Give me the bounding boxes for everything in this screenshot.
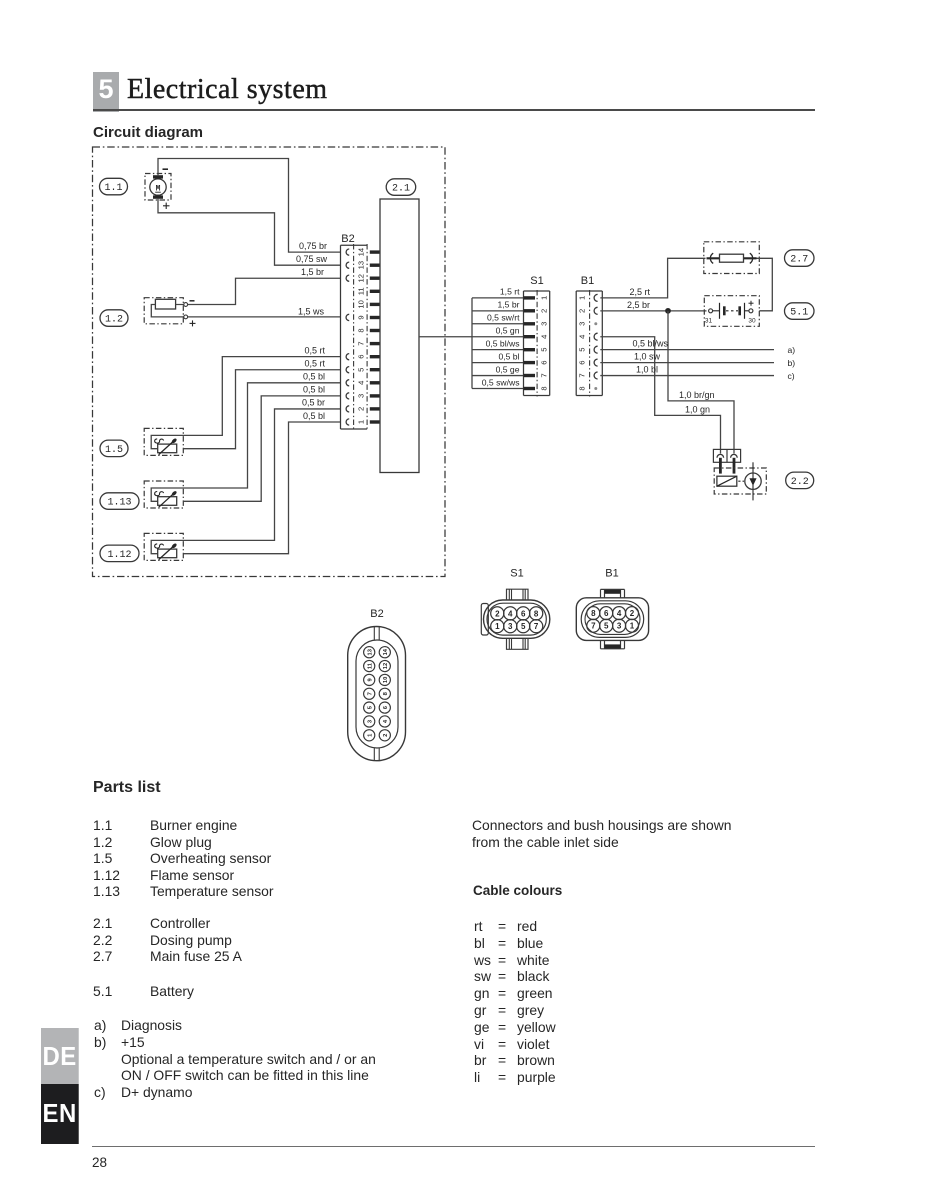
svg-text:9: 9	[357, 315, 366, 319]
header rule	[93, 109, 815, 111]
svg-text:0,5 bl: 0,5 bl	[498, 351, 519, 361]
motor M 1.1 enclosure	[145, 174, 171, 201]
connector B1 female contact pin 7	[594, 372, 598, 379]
svg-text:B1: B1	[605, 568, 618, 580]
wire B1 pin 1 to fuse 2.7 (2,5 rt)	[600, 258, 705, 298]
connector B2 female contact pin 6	[346, 354, 349, 360]
wire S1 pin 1 (1,5 rt)	[472, 297, 524, 299]
connector face B1 top latch	[601, 589, 625, 597]
chapter title	[127, 74, 328, 106]
svg-text:6: 6	[578, 360, 587, 364]
svg-text:1.12: 1.12	[107, 550, 131, 561]
dosing pump 2.2 enclosure	[714, 468, 766, 494]
dosing pump body	[745, 473, 761, 489]
connector face B2 cavity 8	[379, 688, 390, 699]
parts list heading	[93, 779, 161, 797]
svg-text:0,5 bl/ws: 0,5 bl/ws	[486, 338, 520, 348]
wire glow plug plus to B2 pin 9 (1,5 ws)	[188, 316, 341, 318]
svg-text:5: 5	[521, 622, 526, 631]
connector S1 male pin 5	[524, 348, 536, 351]
svg-text:5.1: 5.1	[790, 308, 808, 319]
svg-text:1.13: 1.13	[107, 498, 131, 509]
svg-text:3: 3	[367, 719, 373, 723]
svg-text:0,5 rt: 0,5 rt	[304, 346, 325, 356]
connector B2 female contact pin 12	[346, 275, 349, 281]
node label oval 1.5	[100, 440, 128, 457]
connector face B2 cavity 12	[379, 660, 390, 671]
connector B1 female contact pin 6	[594, 359, 598, 366]
svg-text:1: 1	[540, 296, 549, 300]
connector B1 female contact pin 1	[594, 294, 598, 301]
svg-text:0,5 ge: 0,5 ge	[496, 364, 520, 374]
svg-text:1: 1	[630, 622, 635, 631]
parts list group 3	[93, 983, 194, 1000]
temperature sensor 1.12	[144, 533, 183, 560]
svg-text:0,5 sw/rt: 0,5 sw/rt	[487, 313, 520, 323]
svg-text:11: 11	[367, 662, 373, 669]
dosing pump flow line	[752, 462, 754, 500]
svg-text:1.2: 1.2	[105, 315, 123, 326]
node label oval 1.13	[100, 493, 139, 510]
connector face B1 cavity 1	[626, 619, 639, 632]
connector face S1 bottom latch	[507, 638, 529, 649]
svg-text:2: 2	[540, 309, 549, 313]
wire sensor 1.5 pin A to B2 pin 6 (0,5 rt)	[160, 357, 341, 436]
node label oval 1.12	[100, 545, 139, 562]
wire sensor 1.13 pin A to B2 pin 4 (0,5 bl)	[160, 383, 341, 488]
svg-text:14: 14	[357, 248, 366, 256]
wire S1 pin 5 (0,5 bl/ws)	[472, 349, 524, 351]
wire motor minus to B2 pin 14 (0,75 br)	[158, 159, 341, 253]
connector face S1 cavity 3	[504, 620, 517, 633]
page number	[92, 1155, 107, 1170]
svg-text:1,0 br/gn: 1,0 br/gn	[679, 390, 715, 400]
node label oval 2.1	[386, 179, 416, 196]
svg-text:1,5 br: 1,5 br	[301, 267, 324, 277]
svg-text:4: 4	[508, 609, 513, 618]
dosing pump contact right	[731, 454, 738, 457]
svg-text:3: 3	[357, 394, 366, 398]
battery terminal 31	[709, 309, 713, 313]
svg-text:7: 7	[534, 622, 539, 631]
svg-text:13: 13	[367, 648, 373, 655]
connector B2 female contact pin 3	[346, 393, 349, 399]
connector face S1 cavity 6	[517, 607, 530, 620]
motor brush pad bottom	[153, 195, 163, 198]
motor M 1.1 body	[150, 179, 166, 195]
connector face S1 cavity 7	[530, 620, 543, 633]
svg-text:1: 1	[495, 622, 500, 631]
dosing pump link	[738, 480, 744, 482]
connector B2 male pin 13	[370, 264, 380, 267]
svg-text:5: 5	[578, 348, 587, 352]
connector B2 housing centre dash-dot line	[353, 244, 355, 430]
dosing pump contact left	[717, 454, 724, 457]
connector face S1 housing	[481, 604, 488, 636]
motor brush pad top	[153, 175, 163, 178]
svg-text:0,5 rt: 0,5 rt	[304, 359, 325, 369]
connector B2 male pin 7	[370, 342, 380, 345]
battery plus sign	[749, 302, 754, 304]
wire S1 pin 3 (0,5 sw/rt)	[472, 323, 524, 325]
svg-text:5: 5	[367, 705, 373, 709]
connector B1 centre dash-dot line	[589, 290, 591, 397]
connector B2 male pin 1	[370, 420, 380, 423]
connector face B2 cavity 14	[379, 647, 390, 658]
svg-text:4: 4	[540, 335, 549, 339]
svg-text:B2: B2	[370, 608, 383, 620]
connector face B2 key bottom	[373, 748, 375, 761]
connector B1 unused contact dot pin 3	[595, 323, 597, 325]
wire sensor 1.13 pin B to B2 pin 3 (0,5 bl)	[183, 396, 340, 501]
connector B1 female contact pin 2	[594, 307, 598, 314]
connector B2 male pin 5	[370, 368, 380, 371]
node label oval 2.7	[785, 250, 815, 266]
svg-text:2.7: 2.7	[790, 255, 808, 266]
svg-text:5: 5	[357, 368, 366, 372]
connector face B2 cavity 9	[364, 674, 375, 685]
cable bundle line S1	[471, 298, 473, 389]
connector face S1 cavity 1	[491, 620, 504, 633]
svg-text:2: 2	[357, 407, 366, 411]
wire B1 pin 5 diagnosis line (0,5 bl/ws)	[600, 349, 774, 351]
connector face B1 cavity 8	[587, 607, 600, 620]
svg-text:7: 7	[578, 373, 587, 377]
svg-text:1: 1	[578, 296, 587, 300]
connector face B2 cavity 13	[364, 647, 375, 658]
svg-text:2: 2	[630, 609, 635, 618]
svg-text:c): c)	[788, 371, 795, 381]
dosing pump connector housing	[713, 449, 740, 462]
svg-text:2.1: 2.1	[392, 184, 410, 195]
connector S1 male pin 6	[524, 361, 536, 364]
wire controller to S1 pin 4 (0,5 gn)	[419, 336, 524, 338]
svg-text:0,5 gn: 0,5 gn	[496, 326, 520, 336]
connector B1 female contact pin 5	[594, 346, 598, 353]
svg-text:1,0 sw: 1,0 sw	[634, 352, 661, 362]
connector B2 female contact pin 13	[346, 262, 349, 268]
svg-text:S1: S1	[510, 568, 523, 580]
connector face B2 cavity 10	[379, 674, 390, 685]
wire B1 pin 7 D+ line (1,0 bl)	[600, 375, 774, 377]
connector face B2 cavity 3	[364, 716, 375, 727]
svg-text:14: 14	[383, 648, 389, 655]
connector S1 male pin 7	[524, 374, 536, 377]
connector B2 housing bottom edge	[341, 428, 368, 430]
cable colours table	[474, 918, 556, 1086]
connector B2 male pin 14	[370, 250, 380, 253]
svg-text:7: 7	[591, 622, 596, 631]
main fuse 2.7 enclosure	[704, 242, 760, 274]
connector S1 male pin 4	[524, 335, 536, 338]
connector S1 male pin 2	[524, 309, 536, 312]
svg-text:31: 31	[705, 318, 713, 325]
svg-text:1.1: 1.1	[104, 183, 122, 194]
svg-text:2,5 br: 2,5 br	[627, 300, 650, 310]
svg-text:4: 4	[357, 381, 366, 385]
chapter number box	[93, 72, 119, 112]
connector face S1 top latch	[507, 589, 529, 600]
svg-text:6: 6	[383, 705, 389, 709]
svg-text:S1: S1	[530, 275, 543, 287]
svg-text:2.2: 2.2	[791, 477, 809, 488]
glow plug 1.2 enclosure	[144, 298, 183, 324]
glow plug minus terminal	[184, 303, 188, 307]
svg-text:B1: B1	[581, 275, 594, 287]
connector face B1 cavity 3	[613, 619, 626, 632]
svg-text:4: 4	[617, 609, 622, 618]
glow plug 1.2 heater element	[155, 299, 175, 309]
svg-text:B2: B2	[341, 233, 354, 245]
connector B1 unused contact dot pin 8	[595, 387, 597, 389]
connector S1 housing	[523, 291, 525, 396]
connector B1 housing	[575, 291, 577, 396]
node label oval 1.1	[100, 178, 128, 195]
connector face B2 cavity 5	[364, 702, 375, 713]
motor minus polarity sign	[163, 168, 169, 170]
svg-text:2: 2	[383, 734, 389, 737]
svg-text:10: 10	[357, 300, 366, 308]
svg-text:4: 4	[383, 719, 389, 723]
wire B1 pin 6 +15 line (1,0 sw)	[600, 362, 774, 364]
svg-text:6: 6	[521, 609, 526, 618]
connector face B2 cavity 7	[364, 688, 375, 699]
wire B1 pin 2 to battery 5.1 (2,5 br)	[600, 310, 706, 312]
svg-text:5: 5	[540, 348, 549, 352]
svg-text:8: 8	[383, 691, 389, 695]
wire fuse 2.7 to battery terminal 30	[757, 258, 773, 311]
connector B2 male pin 3	[370, 394, 380, 397]
node label oval 2.2	[786, 472, 814, 489]
svg-text:4: 4	[578, 335, 587, 339]
overheating sensor 1.5	[144, 428, 183, 455]
svg-text:1,5 ws: 1,5 ws	[298, 306, 325, 316]
wire junction to dosing pump (1,0 br/gn)	[668, 311, 734, 454]
svg-text:11: 11	[357, 287, 366, 295]
connector S1 male pin 1	[524, 296, 536, 299]
connector face B1 cavity 2	[626, 607, 639, 620]
language tab EN	[41, 1084, 78, 1144]
connector B2 male pin 2	[370, 407, 380, 410]
svg-text:10: 10	[383, 677, 389, 683]
wire sensor 1.12 pin B to B2 pin 1 (0,5 bl)	[183, 422, 340, 554]
svg-text:a): a)	[788, 345, 796, 355]
svg-text:0,5 br: 0,5 br	[302, 398, 325, 408]
connector B2 female contact pin 9	[346, 314, 349, 320]
motor plus polarity sign	[163, 205, 170, 207]
connector face B2 cavity 11	[364, 660, 375, 671]
battery cells	[713, 310, 720, 312]
svg-text:0,5 sw/ws: 0,5 sw/ws	[482, 377, 520, 387]
node label oval 1.2	[100, 310, 128, 327]
svg-text:7: 7	[367, 692, 373, 695]
connector face B2 housing	[348, 627, 406, 761]
flame sensor 1.13	[144, 481, 183, 508]
connector B2 male pin 10	[370, 303, 380, 306]
connector face S1 cavity 4	[504, 607, 517, 620]
svg-text:3: 3	[508, 622, 513, 631]
svg-text:1.5: 1.5	[105, 445, 123, 456]
connector B2 female contact pin 1	[346, 419, 349, 425]
connector face B1 bottom latch	[601, 640, 625, 648]
node label oval 5.1	[785, 303, 815, 320]
connector B2 male pin 11	[370, 290, 380, 293]
connector face B1 cavity 6	[600, 607, 613, 620]
svg-text:1,5 br: 1,5 br	[498, 300, 520, 310]
svg-text:b): b)	[788, 358, 796, 368]
connector face B1 housing	[576, 598, 648, 641]
connector face B2 key top	[373, 627, 375, 641]
svg-text:6: 6	[540, 360, 549, 364]
dash-dot heater boundary frame	[93, 147, 446, 577]
footer rule	[92, 1146, 815, 1147]
svg-text:8: 8	[540, 386, 549, 390]
connector B2 female contact pin 5	[346, 367, 349, 373]
connector B2 housing left edge	[340, 245, 342, 429]
svg-text:0,5 bl: 0,5 bl	[303, 372, 325, 382]
connector B2 male pin 6	[370, 355, 380, 358]
connector face B1 cavity 4	[613, 607, 626, 620]
connector face S1 cavity 8	[530, 607, 543, 620]
connector face S1 cavity 2	[491, 607, 504, 620]
connector B2 male pin 4	[370, 381, 380, 384]
svg-text:12: 12	[383, 663, 389, 669]
svg-text:6: 6	[604, 609, 609, 618]
connector B2 female contact pin 2	[346, 406, 349, 412]
wire S1 pin 8 (0,5 sw/ws)	[472, 387, 524, 389]
svg-text:0,5 bl: 0,5 bl	[303, 385, 325, 395]
wire S1 pin 7 (0,5 ge)	[472, 375, 524, 377]
wire B1 pin 4 to dosing pump (1,0 gn)	[600, 337, 720, 454]
wire S1 pin 2 (1,5 br)	[472, 310, 524, 312]
svg-text:0,75 br: 0,75 br	[299, 241, 327, 251]
connector face B2 cavity 1	[364, 730, 375, 741]
connector S1 male pin 3	[524, 322, 536, 325]
svg-text:1: 1	[367, 733, 373, 737]
svg-text:8: 8	[534, 609, 539, 618]
wire sensor 1.12 pin A to B2 pin 2 (0,5 br)	[160, 409, 341, 540]
connector B2 socket side dash-dot line	[366, 244, 368, 430]
wire sensor 1.5 pin B to B2 pin 5 (0,5 rt)	[183, 370, 340, 449]
connector B2 male pin 8	[370, 329, 380, 332]
svg-text:1: 1	[357, 420, 366, 424]
cable colours heading	[473, 883, 562, 898]
footnotes	[94, 1017, 376, 1101]
glow plug plus sign	[190, 322, 196, 324]
parts list group 2	[93, 915, 242, 965]
connector face B2 cavity 6	[379, 702, 390, 713]
battery 5.1 enclosure	[704, 296, 759, 327]
connector B2 female contact pin 14	[346, 249, 349, 255]
svg-text:7: 7	[357, 341, 366, 345]
dosing pump solenoid	[717, 476, 737, 486]
glow plug minus sign	[190, 300, 195, 302]
svg-text:1,0 gn: 1,0 gn	[685, 405, 710, 415]
connector B1 female contact pin 4	[594, 333, 598, 340]
connector face S1 cavity 5	[517, 620, 530, 633]
connector B2 male pin 9	[370, 316, 380, 319]
svg-text:1,5 rt: 1,5 rt	[500, 287, 520, 297]
connector face B1 cavity 5	[600, 619, 613, 632]
connector B2 male pin 12	[370, 277, 380, 280]
svg-text:0,5 bl: 0,5 bl	[303, 411, 325, 421]
connector face B2 cavity 2	[379, 730, 390, 741]
svg-text:8: 8	[578, 386, 587, 390]
parts list group 1	[93, 817, 274, 900]
junction node on 2,5 br wire	[666, 309, 670, 313]
svg-text:0,75 sw: 0,75 sw	[296, 254, 328, 264]
svg-text:2,5 rt: 2,5 rt	[629, 287, 650, 297]
svg-text:8: 8	[357, 328, 366, 332]
connector S1 centre dash-dot line	[536, 290, 538, 397]
svg-text:9: 9	[367, 678, 373, 682]
svg-text:7: 7	[540, 373, 549, 377]
glow plug plus terminal	[184, 315, 188, 319]
svg-text:3: 3	[540, 322, 549, 326]
wire motor plus to B2 pin 13 (0,75 sw)	[158, 199, 341, 265]
svg-text:8: 8	[591, 609, 596, 618]
svg-text:12: 12	[357, 274, 366, 282]
glow plug internal wiring	[151, 305, 184, 317]
svg-text:2: 2	[495, 609, 500, 618]
svg-text:13: 13	[357, 261, 366, 269]
controller 2.1 body	[380, 199, 419, 473]
section heading	[93, 124, 203, 141]
connector B2 female contact pin 4	[346, 380, 349, 386]
main fuse 2.7 element	[707, 257, 757, 259]
svg-text:0,5 bl/ws: 0,5 bl/ws	[632, 339, 668, 349]
svg-text:3: 3	[578, 322, 587, 326]
svg-text:30: 30	[748, 318, 756, 325]
wire glow plug minus to B2 pin 12 (1,5 br)	[188, 278, 341, 304]
wire S1 pin 6 (0,5 bl)	[472, 362, 524, 364]
svg-text:1,0 bl: 1,0 bl	[636, 364, 658, 374]
right column note	[472, 817, 731, 850]
svg-text:2: 2	[578, 309, 587, 313]
connector B2 housing top edge	[341, 244, 368, 246]
svg-text:5: 5	[604, 622, 609, 631]
svg-text:3: 3	[617, 622, 622, 631]
svg-text:6: 6	[357, 355, 366, 359]
language tab DE	[41, 1028, 78, 1084]
connector S1 male pin 8	[524, 387, 536, 390]
connector face B1 cavity 7	[587, 619, 600, 632]
connector face B2 cavity 4	[379, 716, 390, 727]
battery terminal 30	[749, 309, 753, 313]
